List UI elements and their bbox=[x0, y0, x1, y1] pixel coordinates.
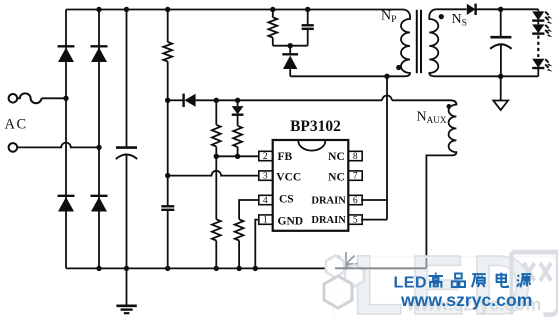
node zener branch top bbox=[235, 98, 240, 103]
resistor R3 bbox=[233, 126, 242, 147]
node top rail / startup branch bbox=[165, 7, 170, 12]
AC terminal L bbox=[9, 94, 18, 103]
wire R6 top stub bbox=[272, 10, 274, 18]
wire Naux over panel bbox=[335, 258, 426, 268]
wire bulk cap branch bbox=[126, 10, 128, 147]
wire right bridge leg bbox=[98, 10, 100, 269]
wire startup branch upper bbox=[167, 10, 169, 43]
wire zener to R3 bbox=[237, 115, 239, 126]
wire dashed LED string continuation bbox=[537, 36, 539, 58]
wire AC live to bridge bbox=[41, 97, 66, 99]
wire drain vertical bbox=[386, 76, 388, 219]
diode D3 bridge bottom-left bbox=[58, 196, 75, 212]
wire R1 to VCC node bbox=[167, 62, 169, 206]
LED2 bbox=[532, 24, 544, 33]
svg-text:6: 6 bbox=[353, 196, 358, 206]
node C2 / ground rail bbox=[165, 266, 170, 271]
diode D4 bridge bottom-right bbox=[91, 196, 108, 212]
watermark snowflake petals bbox=[324, 256, 364, 309]
ground GND2 output bbox=[493, 76, 508, 110]
wire CS from pin4 bbox=[239, 200, 259, 219]
svg-text:4: 4 bbox=[263, 196, 268, 206]
node top rail / bulk cap bbox=[124, 7, 129, 12]
wire R3 to FB node bbox=[237, 147, 239, 156]
resistor R6 snubber bbox=[268, 17, 277, 37]
ground GND1 bbox=[116, 306, 136, 313]
watermark panel bbox=[324, 238, 558, 318]
node FB divider top left bbox=[214, 98, 219, 103]
wire zener branch top stub bbox=[237, 100, 239, 106]
wire aux feed line (hop over drain line) bbox=[196, 96, 392, 101]
node Ns phase dot bbox=[439, 14, 444, 19]
LED3 bbox=[532, 59, 544, 68]
wire R2 to FB node bbox=[215, 147, 217, 157]
node primary bottom junction bbox=[384, 74, 389, 79]
svg-text:1: 1 bbox=[263, 216, 268, 226]
svg-text:NC: NC bbox=[328, 151, 345, 163]
resistor R1 bbox=[163, 42, 172, 62]
wire secondary top to diode bbox=[436, 8, 466, 10]
pin 2 box bbox=[259, 151, 273, 162]
node FB junction bbox=[214, 154, 219, 159]
node right leg / ground rail bbox=[96, 266, 101, 271]
wire FB to pin2 bbox=[216, 155, 258, 157]
wire FB node down through to R4 bbox=[215, 156, 217, 219]
svg-text:BP3102: BP3102 bbox=[290, 118, 341, 135]
wire VCC to pin3 (hop over divider) bbox=[168, 171, 259, 176]
watermark big gray glyph wang bbox=[512, 252, 558, 315]
svg-text:www.szryc.com: www.szryc.com bbox=[400, 290, 532, 310]
capacitor C4 output electrolytic bbox=[490, 9, 511, 76]
pin 6 box bbox=[348, 195, 362, 206]
LED1 bbox=[532, 11, 544, 20]
node GND / ground rail bbox=[253, 266, 258, 271]
wire FB divider upper-left branch bbox=[215, 100, 217, 125]
watermark glyph gao bbox=[429, 273, 443, 288]
node output cap top bbox=[498, 7, 503, 12]
wire pin5 to drain bbox=[361, 219, 387, 221]
wire pin6 to drain bbox=[361, 199, 387, 201]
wire R6 bottom stub bbox=[272, 38, 274, 46]
wire AC neutral to bridge (hop over left leg) bbox=[17, 143, 99, 148]
IC notch bbox=[298, 141, 325, 151]
svg-text:DRAIN: DRAIN bbox=[311, 196, 346, 207]
wire LED1-LED2 bbox=[537, 21, 539, 25]
LED light arrows bbox=[545, 12, 552, 72]
node top rail / right leg bbox=[96, 7, 101, 12]
resistor R4 bbox=[212, 219, 221, 240]
wire ground stub bbox=[126, 268, 128, 305]
node R3 / FB wire bbox=[235, 154, 240, 159]
pin 4 box bbox=[259, 195, 273, 206]
wire diode to LED string bbox=[476, 8, 539, 10]
svg-text:VCC: VCC bbox=[276, 171, 301, 183]
svg-text:8: 8 bbox=[353, 152, 358, 162]
svg-text:GND: GND bbox=[278, 215, 304, 227]
wire clamp to primary bottom bbox=[290, 75, 387, 77]
capacitor C1 bulk electrolytic bbox=[116, 148, 137, 159]
capacitor C3 snubber bbox=[302, 25, 314, 29]
wire GND pin1 to rail bbox=[255, 220, 258, 269]
wire LED string top bbox=[537, 9, 539, 11]
svg-text:NC: NC bbox=[328, 171, 345, 183]
svg-text:2: 2 bbox=[263, 152, 268, 162]
pin 3 box bbox=[259, 171, 273, 182]
wire left bridge leg bbox=[65, 10, 67, 269]
node startup/D5 junction bbox=[165, 98, 170, 103]
svg-text:7: 7 bbox=[353, 172, 358, 182]
diode D5 bbox=[168, 94, 196, 107]
diode D6 output rectifier bbox=[467, 4, 476, 15]
transformer core bbox=[417, 10, 421, 73]
wire bulk cap to ground rail bbox=[126, 154, 128, 269]
watermark glyph pin bbox=[452, 274, 465, 287]
node Naux phase dot bbox=[447, 104, 452, 109]
svg-text:CS: CS bbox=[279, 194, 294, 206]
svg-text:3: 3 bbox=[263, 172, 268, 182]
resistor R5 current sense bbox=[235, 219, 244, 240]
node R5 / ground rail bbox=[236, 266, 241, 271]
wire bottom ground rail bbox=[66, 267, 426, 269]
watermark snowflake rays bbox=[334, 252, 358, 276]
wire top rail bbox=[66, 9, 403, 11]
node output cap bottom bbox=[498, 74, 503, 79]
node VCC tap junction bbox=[165, 173, 170, 178]
zener ZD1 bbox=[232, 106, 244, 115]
svg-text:5: 5 bbox=[353, 216, 358, 226]
node R4 / ground rail bbox=[214, 266, 219, 271]
svg-text:DRAIN: DRAIN bbox=[311, 215, 346, 226]
node rail/C3 bbox=[305, 7, 310, 12]
fuse F1 bbox=[17, 93, 41, 103]
watermark glyph yuan bbox=[517, 274, 531, 287]
diode D2 bridge top-right bbox=[91, 46, 108, 62]
wire snubber bottom connector bbox=[273, 45, 308, 47]
pin 1 box bbox=[259, 215, 273, 226]
node snubber diode junction bbox=[288, 43, 293, 48]
node Np phase dot bbox=[396, 65, 401, 70]
transformer T1 secondary Ns bbox=[429, 9, 538, 76]
diode D1 bridge top-left bbox=[58, 46, 75, 62]
wire C3 bottom stub bbox=[307, 29, 309, 46]
wire R4 to ground rail bbox=[215, 241, 217, 269]
pin 7 box bbox=[348, 171, 362, 182]
svg-text:FB: FB bbox=[278, 151, 293, 163]
node neutral-bridge junction bbox=[96, 145, 101, 150]
transformer T1 primary Np bbox=[387, 10, 410, 77]
wire R5 to ground rail bbox=[238, 241, 240, 269]
node bulk cap / ground rail bbox=[124, 266, 129, 271]
IC U1 BP3102 body bbox=[273, 140, 349, 231]
svg-text:AC: AC bbox=[5, 117, 28, 133]
watermark glyph zhi bbox=[472, 274, 486, 287]
diode D7 clamp bbox=[282, 46, 298, 77]
pin 5 box bbox=[348, 215, 362, 226]
wire C3 top stub bbox=[307, 10, 309, 26]
watermark glyph dian bbox=[497, 273, 508, 287]
AC terminal N bbox=[9, 143, 18, 152]
resistor R2 bbox=[212, 125, 221, 147]
capacitor C2 VCC bbox=[161, 206, 174, 210]
transformer T1 aux winding Naux bbox=[392, 100, 457, 268]
pin 8 box bbox=[348, 151, 362, 162]
snubber: node rail/R6 bbox=[270, 7, 275, 12]
wire LED3 to bottom bbox=[537, 68, 539, 76]
node live-bridge junction bbox=[63, 96, 68, 101]
wire C2 to ground rail bbox=[167, 210, 169, 268]
